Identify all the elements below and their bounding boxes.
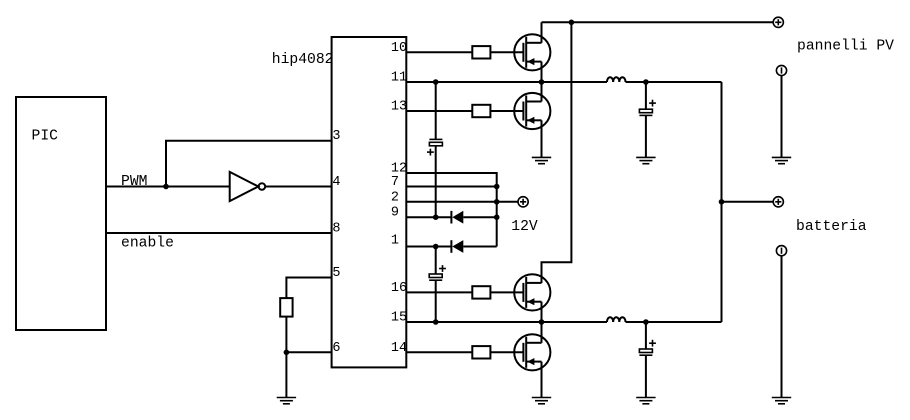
wire to batteria + terminal <box>722 201 774 203</box>
svg-text:1: 1 <box>391 234 399 249</box>
wire M4 drain up to phase node B <box>541 322 543 343</box>
wire enable net from PIC to pin 8 <box>106 232 332 234</box>
node junction M3 source / M4 drain <box>539 319 545 325</box>
MOSFET M1 <box>514 34 550 70</box>
wire R2 to M2 gate <box>490 110 522 112</box>
pin label 4 <box>332 175 340 190</box>
terminal + 12V <box>518 197 528 207</box>
wire pin 16 to gate resistor R3 <box>406 291 472 293</box>
ground M2 source <box>532 157 551 163</box>
wire L2 to output column corner <box>626 321 722 323</box>
wire R4 to M4 gate <box>490 351 522 353</box>
svg-text:batteria: batteria <box>796 219 867 235</box>
node junction on top rail <box>569 20 575 26</box>
wire pin11 junction down to bootstrap cap C1 <box>435 82 437 139</box>
svg-text:5: 5 <box>332 266 340 281</box>
terminal - batteria <box>776 246 786 256</box>
svg-text:PWM: PWM <box>121 174 147 190</box>
label pannelli PV <box>797 38 894 54</box>
node junction L2/C4 <box>643 319 649 325</box>
wire R3 to M3 gate <box>490 291 522 293</box>
wire D1 to column <box>463 216 496 218</box>
pin label 14 <box>391 341 407 356</box>
wire M2 drain up to phase node <box>541 82 543 102</box>
svg-text:4: 4 <box>332 175 340 190</box>
diode D1 <box>451 211 463 224</box>
capacitor C1 (polarized, + down-left) <box>427 139 442 155</box>
wire C2 down to pin 15 net <box>435 280 437 322</box>
inverter U3 (NOT gate) <box>230 172 266 201</box>
wire output column (pannelli PV + / battery +) <box>721 82 723 322</box>
inductor L1 <box>607 77 626 82</box>
wire pin 13 to gate resistor R2 <box>406 110 472 112</box>
pin label 5 <box>332 266 340 281</box>
pin label 2 <box>391 190 399 205</box>
wire C4 to ground <box>645 355 647 397</box>
svg-text:pannelli PV: pannelli PV <box>797 38 894 54</box>
wire pin 9 to diode D1 <box>406 216 451 218</box>
svg-text:13: 13 <box>391 100 407 115</box>
wire D2 to column corner <box>463 246 496 248</box>
svg-text:7: 7 <box>391 175 399 190</box>
wire pin 2 to 12V terminal <box>406 201 518 203</box>
wire pin 7 <box>406 186 496 188</box>
PIC microcontroller box U2 <box>16 97 106 330</box>
wire PWM net from PIC to inverter input <box>106 186 230 188</box>
svg-text:14: 14 <box>391 341 407 356</box>
resistor R4 <box>472 346 490 358</box>
node junction pin15/cap column <box>433 319 439 325</box>
ground C3 <box>636 157 655 163</box>
wire pin1 junction down to cap C2 <box>435 247 437 275</box>
wire C1 down through pins to diode column <box>435 146 437 217</box>
resistor R3 <box>472 286 490 298</box>
pin label 3 <box>332 129 340 144</box>
pin label 11 <box>391 71 407 86</box>
resistor R5 <box>280 298 292 317</box>
MOSFET M2 <box>514 93 550 129</box>
wire junction L2/C4 down to C4 <box>645 322 647 349</box>
wire pin 5 to resistor R5 <box>286 278 331 299</box>
wire M3 source down to phase node B <box>541 302 543 322</box>
MOSFET M3 <box>514 274 550 310</box>
wire from PWM junction up and right to pin 3 <box>166 141 332 187</box>
pin label 7 <box>391 175 399 190</box>
pin label 1 <box>391 234 399 249</box>
wire inverter output to pin 4 <box>265 186 331 188</box>
svg-text:2: 2 <box>391 190 399 205</box>
label enable <box>121 236 174 252</box>
svg-text:15: 15 <box>391 311 407 326</box>
wire M1 source down to phase node <box>541 62 543 82</box>
ground batteria - <box>772 398 791 404</box>
terminal + batteria <box>773 197 783 207</box>
label 12V <box>511 219 538 235</box>
wire pin 10 to gate resistor R1 <box>406 51 472 53</box>
svg-text:PIC: PIC <box>32 129 59 145</box>
resistor R1 <box>472 46 490 58</box>
node junction battery + tap <box>719 199 725 205</box>
pin label 9 <box>391 206 399 221</box>
pin label 13 <box>391 100 407 115</box>
pin label 8 <box>332 222 340 237</box>
wire pin 12 over and down <box>406 173 496 247</box>
wire M2 source down to ground <box>541 120 543 157</box>
ground C4 <box>636 398 655 404</box>
wire pin 1 to diode D2 <box>406 246 451 248</box>
diode D2 <box>451 240 463 253</box>
node junction pin2/col <box>494 199 500 205</box>
svg-text:8: 8 <box>332 222 340 237</box>
wire pin 14 to gate resistor R4 <box>406 351 472 353</box>
wire down to ground <box>285 352 287 397</box>
wire junction L1/C3 down to C3 <box>645 82 647 109</box>
wire M4 source down to ground <box>541 362 543 398</box>
terminal + pannelli PV <box>773 17 783 27</box>
node junction pin5/pin6 net <box>284 350 290 356</box>
svg-text:12V: 12V <box>511 219 538 235</box>
inductor L2 <box>607 317 626 322</box>
wire L1 to corner at output column <box>626 81 722 83</box>
node junction on pin 9 line <box>433 214 439 220</box>
pin label 6 <box>332 341 340 356</box>
label hip4082 <box>272 52 334 68</box>
svg-text:hip4082: hip4082 <box>272 52 334 68</box>
svg-text:enable: enable <box>121 236 174 252</box>
svg-text:16: 16 <box>391 281 407 296</box>
capacitor C2 (polarized, + up-right) <box>429 265 446 280</box>
wire M1 drain up to top rail <box>541 22 543 43</box>
capacitor C4 (polarized, + up-right) <box>639 340 656 355</box>
wire batteria - to ground <box>781 256 783 398</box>
IC U1 hip4082 box <box>332 37 407 367</box>
node junction pin9/col <box>494 214 500 220</box>
svg-text:9: 9 <box>391 206 399 221</box>
wire from top rail junction down to M3 drain <box>542 22 572 283</box>
pin label 15 <box>391 311 407 326</box>
terminal - pannelli PV <box>776 65 786 75</box>
wire R1 to M1 gate <box>490 51 522 53</box>
pin label 16 <box>391 281 407 296</box>
ground pannelli - <box>772 157 791 163</box>
wire top rail to pannelli + terminal <box>542 21 774 23</box>
pin label 10 <box>391 41 407 56</box>
resistor R2 <box>472 105 490 117</box>
MOSFET M4 <box>514 334 550 370</box>
pin label 12 <box>391 162 407 177</box>
node junction pin7/col <box>494 184 500 190</box>
svg-text:11: 11 <box>391 71 407 86</box>
node junction on pin 1 line <box>433 244 439 250</box>
wire pin 6 <box>286 351 331 353</box>
label PWM <box>121 174 147 190</box>
wire pannelli - to ground <box>781 76 783 158</box>
ground <box>277 398 296 404</box>
ground M4 source <box>532 398 551 404</box>
wire pin 11 net (phase A) <box>406 81 607 83</box>
svg-text:10: 10 <box>391 41 407 56</box>
wire R5 to pin 6 net <box>285 317 287 353</box>
node junction pin11/cap <box>433 79 439 85</box>
capacitor C3 (polarized, + up-right) <box>639 100 656 116</box>
node junction M1 source / M2 drain <box>539 79 545 85</box>
svg-text:3: 3 <box>332 129 340 144</box>
node junction L1/C3 <box>643 79 649 85</box>
label batteria <box>796 219 867 235</box>
wire pin 15 net (phase B) <box>406 321 607 323</box>
wire C3 to ground <box>645 115 647 157</box>
svg-text:6: 6 <box>332 341 340 356</box>
node junction on PWM net <box>163 184 169 190</box>
